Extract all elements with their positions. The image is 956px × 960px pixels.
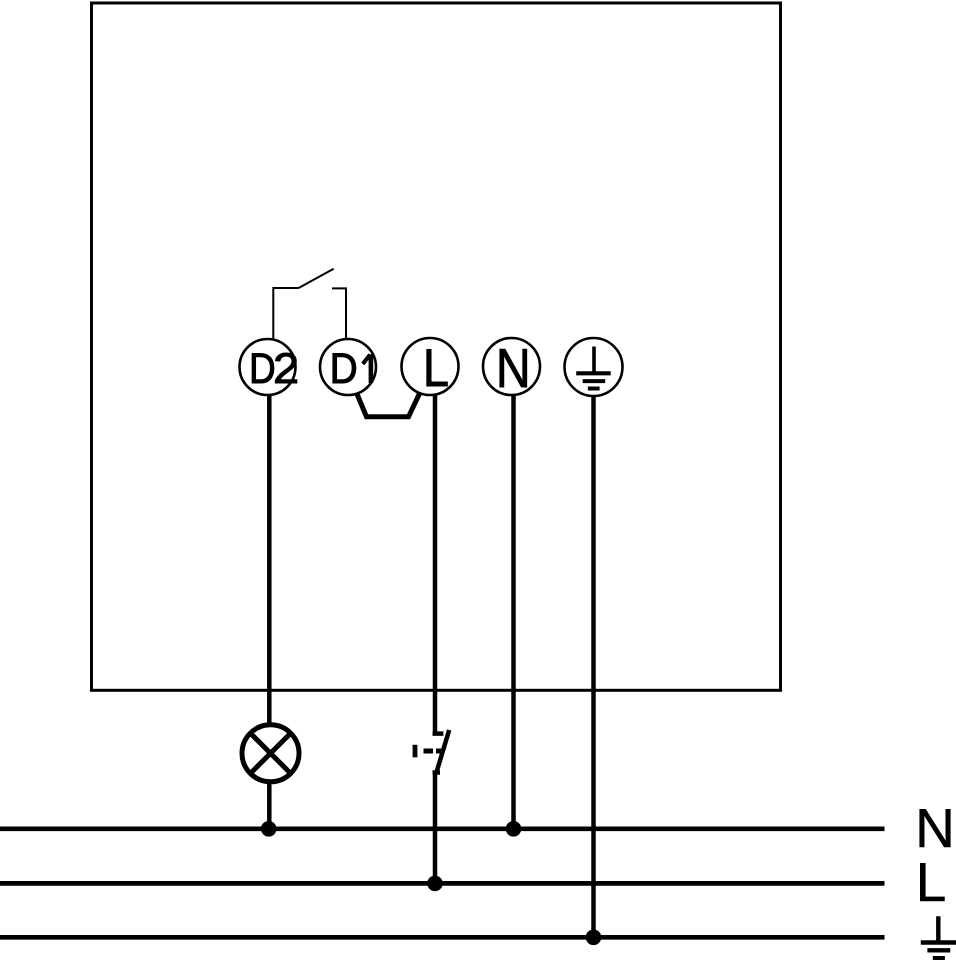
junction N-wire / N bus <box>506 821 522 837</box>
junction button-wire / L bus <box>427 876 443 892</box>
terminal D2 <box>240 339 300 395</box>
wire push-button to L bus <box>433 773 438 884</box>
push-button S1 top contact tick <box>433 731 444 736</box>
earth symbol (bottom right) <box>921 916 956 958</box>
N bus line <box>0 826 885 831</box>
terminal N <box>483 337 540 399</box>
lamp E1 <box>242 725 299 782</box>
jumper wire D1 to L <box>357 394 420 417</box>
terminal D1 <box>320 339 376 395</box>
terminal L <box>402 338 459 398</box>
earth bus line <box>0 935 885 940</box>
label L <box>916 851 947 913</box>
svg-text:L: L <box>423 338 449 397</box>
junction earth-wire / earth bus <box>586 930 602 946</box>
relay contact K1 right lead (to D1) <box>332 288 346 338</box>
wire N terminal to N bus <box>511 394 516 829</box>
svg-text:N: N <box>915 797 955 859</box>
push-button S1 actuator T-bar <box>413 745 418 758</box>
label N <box>915 797 955 859</box>
relay contact K1 blade <box>299 269 334 288</box>
L bus line <box>0 881 885 886</box>
wire earth terminal to earth bus <box>591 394 596 937</box>
push-button S1 bottom contact tick <box>433 770 441 775</box>
wire L terminal to push-button <box>433 393 438 734</box>
svg-text:2: 2 <box>273 346 299 392</box>
junction lamp-wire / N bus <box>261 821 277 837</box>
svg-text:D: D <box>330 344 358 392</box>
push-button S1 actuator dashed link <box>424 749 442 754</box>
push-button S1 blade <box>437 730 450 772</box>
wire D2 terminal to lamp and N bus <box>267 394 272 829</box>
svg-text:N: N <box>496 337 531 399</box>
earth symbol inside PE terminal <box>576 347 611 389</box>
terminal PE (earth) <box>565 338 623 396</box>
svg-text:L: L <box>916 851 947 913</box>
relay contact K1 left lead (from D2) <box>273 288 298 339</box>
device enclosure box <box>92 3 781 690</box>
svg-text:D: D <box>249 346 276 393</box>
